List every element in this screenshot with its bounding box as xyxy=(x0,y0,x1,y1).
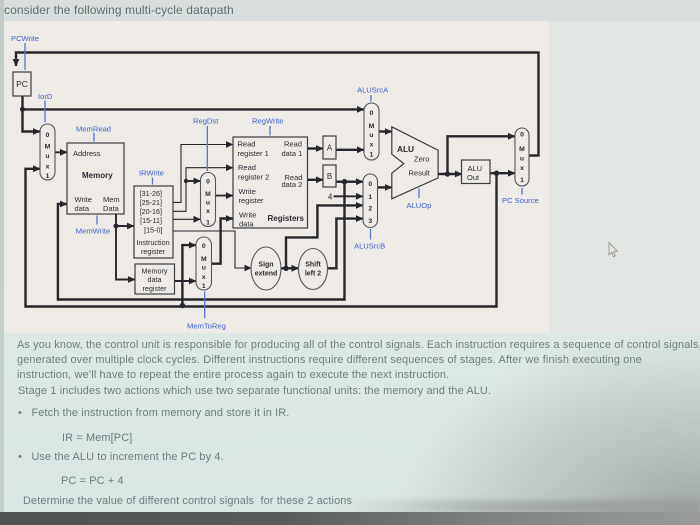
svg-text:Data: Data xyxy=(103,204,120,213)
svg-text:[31-26]: [31-26] xyxy=(140,189,162,198)
svg-text:data 1: data 1 xyxy=(282,149,303,158)
svg-text:M: M xyxy=(519,146,525,153)
svg-text:x: x xyxy=(370,142,374,149)
svg-text:ALUSrcA: ALUSrcA xyxy=(357,86,389,95)
svg-text:1: 1 xyxy=(202,283,206,290)
svg-text:Read: Read xyxy=(238,163,256,172)
svg-text:data: data xyxy=(239,219,254,228)
svg-text:data: data xyxy=(75,204,90,213)
svg-text:left 2: left 2 xyxy=(305,271,321,278)
svg-text:data: data xyxy=(148,275,162,284)
svg-text:register: register xyxy=(239,196,265,205)
svg-text:IorD: IorD xyxy=(38,92,53,101)
svg-text:[25-21]: [25-21] xyxy=(140,198,162,207)
svg-text:Sign: Sign xyxy=(258,262,273,269)
svg-text:MemRead: MemRead xyxy=(76,125,111,134)
svg-text:ALUOp: ALUOp xyxy=(407,201,432,210)
svg-text:PC Source: PC Source xyxy=(502,196,539,205)
svg-text:M: M xyxy=(45,144,51,151)
svg-text:x: x xyxy=(520,165,524,172)
svg-text:2: 2 xyxy=(368,206,372,213)
svg-text:register: register xyxy=(143,284,168,293)
svg-text:Registers: Registers xyxy=(268,214,305,223)
svg-text:M: M xyxy=(369,123,375,130)
svg-text:[20-16]: [20-16] xyxy=(140,207,162,216)
svg-text:u: u xyxy=(520,156,524,163)
svg-text:data 2: data 2 xyxy=(282,180,303,189)
svg-text:0: 0 xyxy=(520,132,524,139)
svg-text:M: M xyxy=(201,256,207,263)
svg-text:x: x xyxy=(202,274,206,281)
svg-text:0: 0 xyxy=(206,179,210,186)
svg-text:Result: Result xyxy=(409,169,431,178)
svg-text:Write: Write xyxy=(75,195,92,204)
svg-text:[15-11]: [15-11] xyxy=(140,216,162,225)
svg-text:Memory: Memory xyxy=(82,171,113,180)
svg-text:RegWrite: RegWrite xyxy=(252,117,284,126)
svg-text:Read: Read xyxy=(238,140,256,149)
svg-text:1: 1 xyxy=(46,173,50,180)
svg-text:PCWrite: PCWrite xyxy=(11,34,39,43)
svg-text:B: B xyxy=(327,172,332,181)
svg-text:Mem: Mem xyxy=(103,195,120,204)
svg-text:Write: Write xyxy=(239,187,256,196)
svg-text:RegDst: RegDst xyxy=(193,117,219,126)
svg-text:ALU: ALU xyxy=(397,144,414,154)
svg-text:MemToReg: MemToReg xyxy=(187,322,226,331)
svg-text:u: u xyxy=(369,132,373,139)
svg-text:M: M xyxy=(205,191,211,198)
svg-text:A: A xyxy=(327,144,333,153)
svg-text:PC: PC xyxy=(16,79,28,89)
svg-text:register: register xyxy=(141,247,166,256)
svg-text:u: u xyxy=(45,153,49,160)
svg-text:MemWrite: MemWrite xyxy=(76,227,110,236)
svg-text:1: 1 xyxy=(368,194,372,201)
svg-text:0: 0 xyxy=(370,110,374,117)
svg-text:Instruction: Instruction xyxy=(136,238,169,247)
svg-text:Read: Read xyxy=(284,140,302,149)
svg-text:0: 0 xyxy=(46,132,50,139)
svg-text:3: 3 xyxy=(368,218,372,225)
svg-text:IRWrite: IRWrite xyxy=(139,169,164,178)
svg-text:ALUSrcB: ALUSrcB xyxy=(354,242,385,251)
svg-text:4: 4 xyxy=(328,192,333,201)
svg-text:1: 1 xyxy=(520,177,524,184)
svg-text:1: 1 xyxy=(206,220,210,227)
svg-text:[15-0]: [15-0] xyxy=(144,226,162,235)
svg-text:1: 1 xyxy=(370,152,374,159)
svg-text:Write: Write xyxy=(239,211,256,220)
svg-text:register 1: register 1 xyxy=(238,149,269,158)
svg-text:Address: Address xyxy=(73,149,101,158)
svg-text:u: u xyxy=(202,265,206,272)
svg-text:x: x xyxy=(206,208,210,215)
svg-text:extend: extend xyxy=(255,271,278,278)
svg-text:x: x xyxy=(46,164,50,171)
svg-text:register 2: register 2 xyxy=(238,172,269,181)
svg-text:u: u xyxy=(206,200,210,207)
svg-text:Zero: Zero xyxy=(414,155,429,164)
svg-text:Out: Out xyxy=(467,173,480,182)
svg-text:0: 0 xyxy=(368,181,372,188)
svg-text:0: 0 xyxy=(202,243,206,250)
svg-text:Shift: Shift xyxy=(305,262,321,269)
svg-text:ALU: ALU xyxy=(468,164,483,173)
